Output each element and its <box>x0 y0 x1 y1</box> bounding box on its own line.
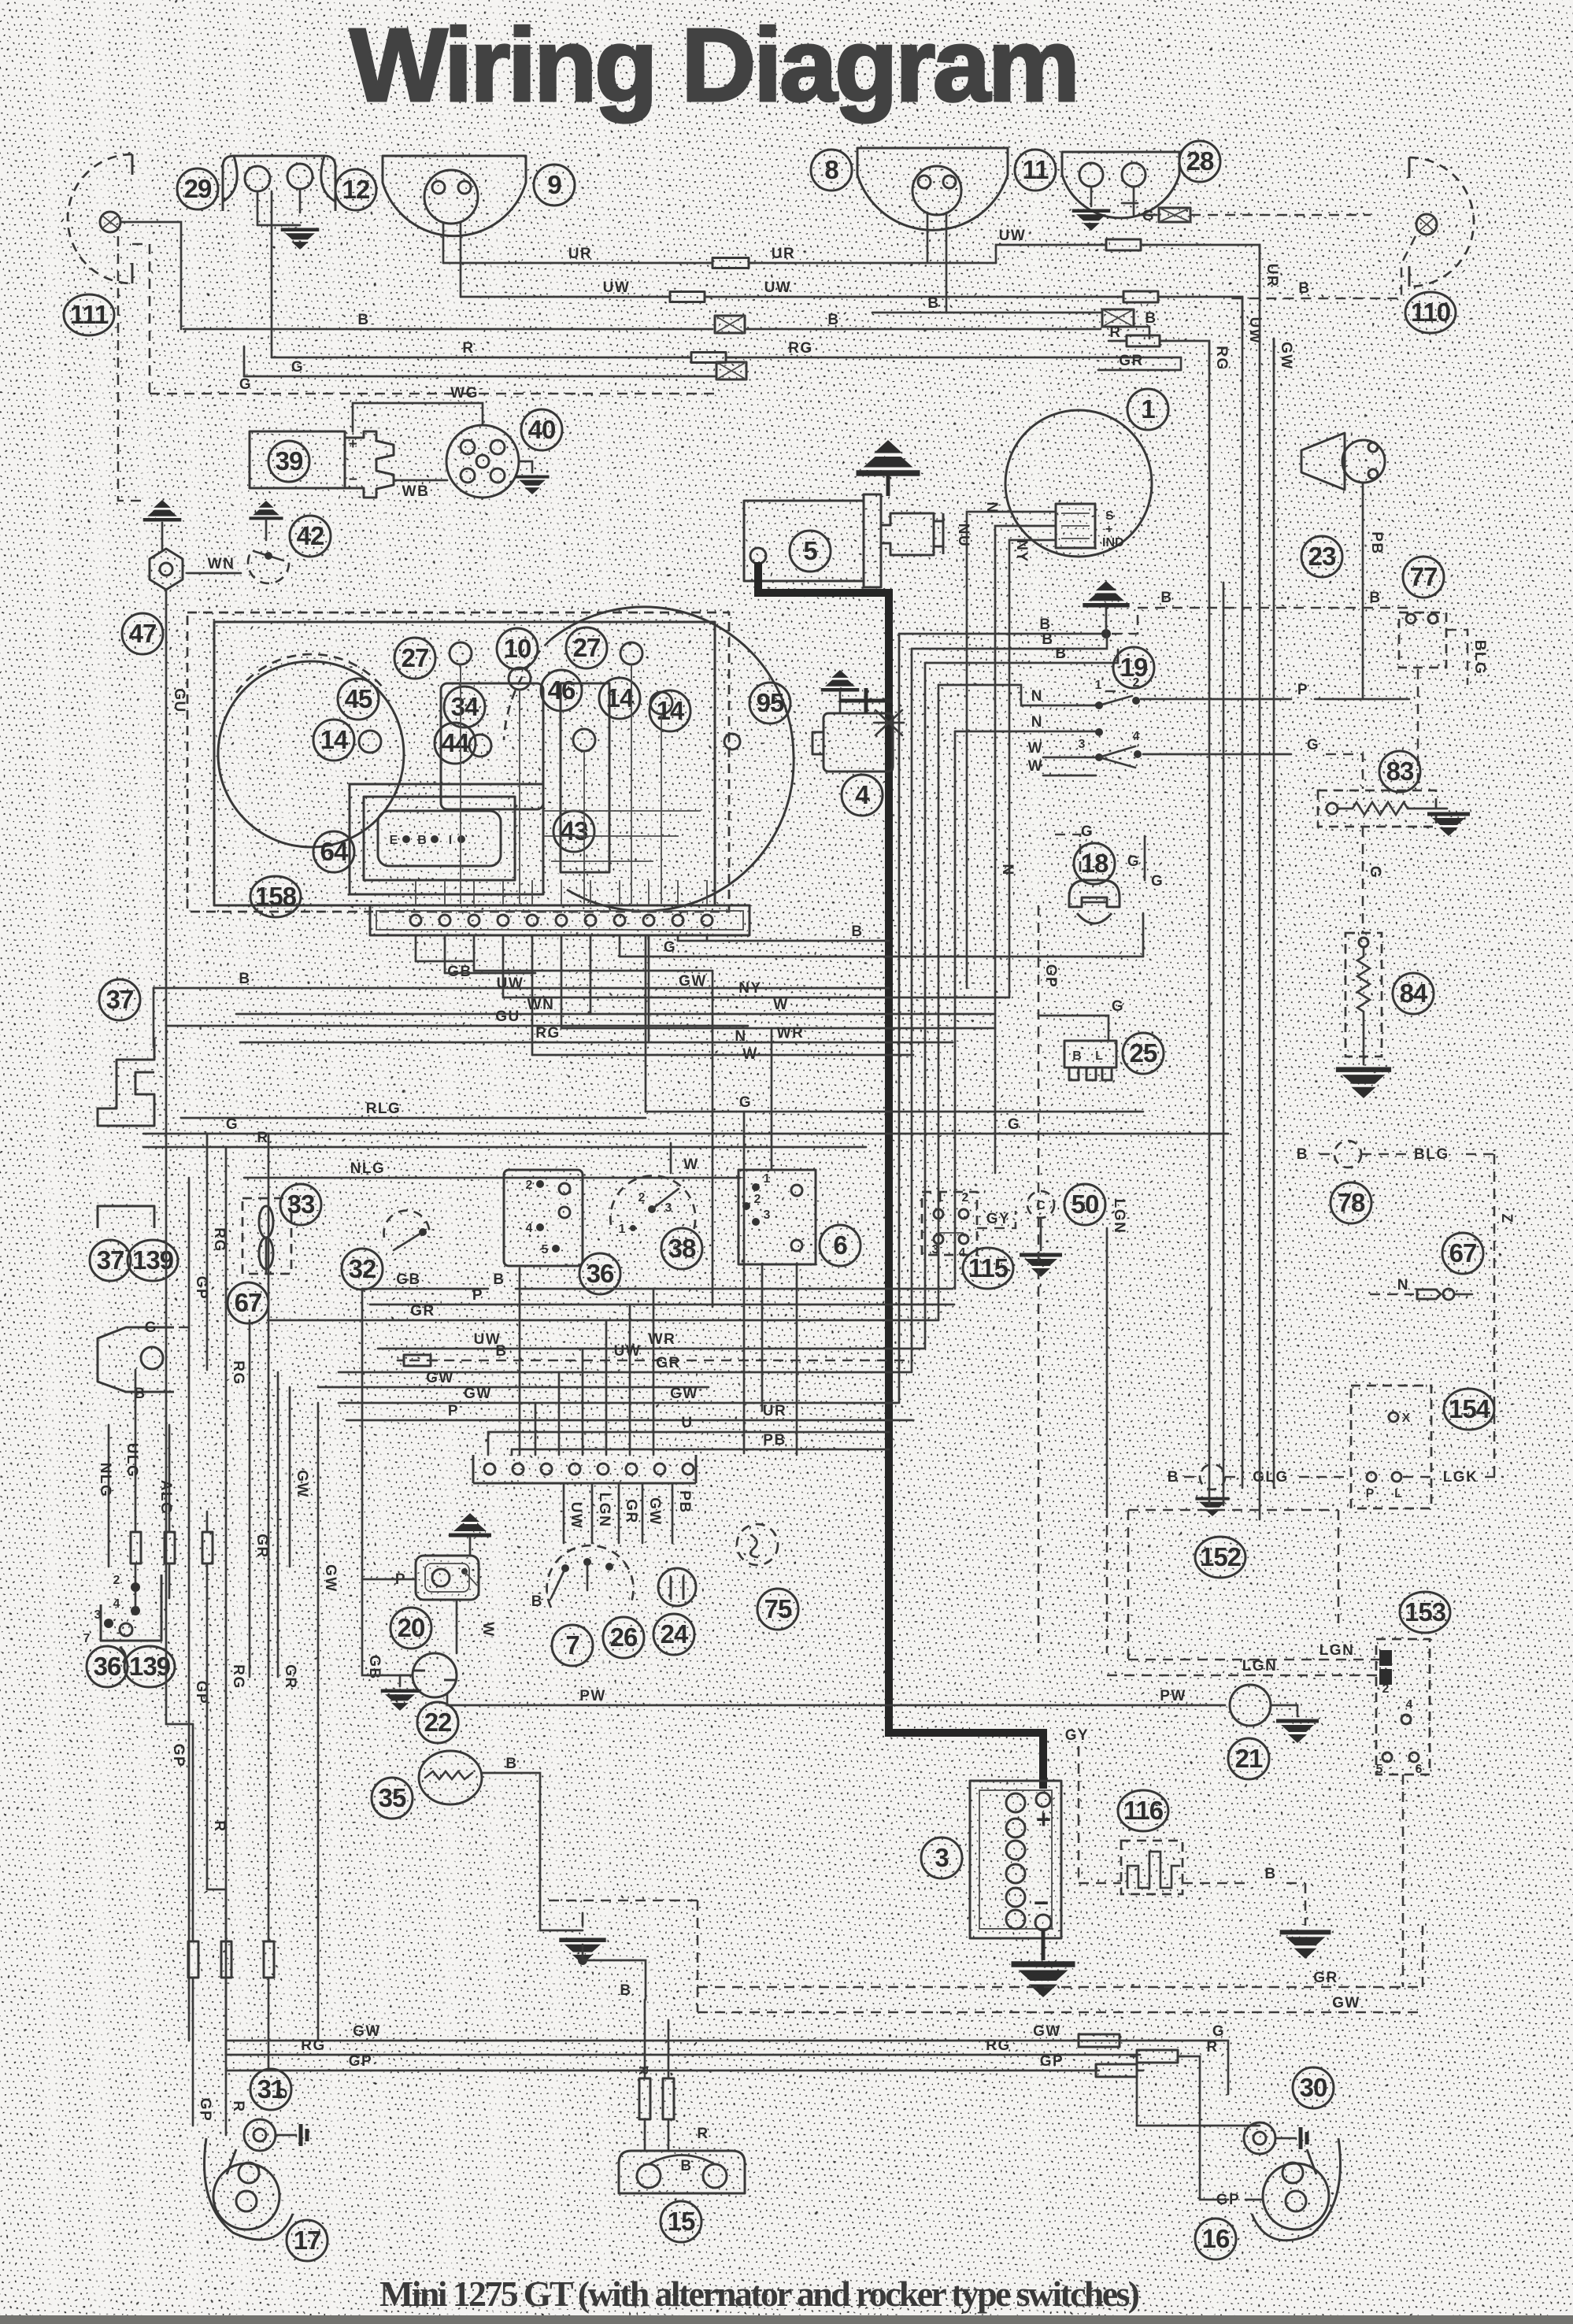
label circle 44 <box>435 723 476 764</box>
center bundle verticals <box>898 634 901 1403</box>
svg-text:RG: RG <box>986 2037 1011 2054</box>
wire RG/WR row <box>240 1042 953 1044</box>
svg-text:2: 2 <box>962 1191 969 1205</box>
wire UW row 3 <box>409 1360 913 1362</box>
svg-text:N: N <box>1031 688 1043 705</box>
label circle 24 <box>653 1614 694 1655</box>
wire dashed from 153 down <box>1402 1774 1405 1987</box>
svg-text:W: W <box>1028 740 1043 757</box>
wires from alternator <box>967 512 1056 988</box>
svg-text:39: 39 <box>276 446 303 476</box>
svg-text:B: B <box>495 1343 507 1360</box>
svg-text:17: 17 <box>294 2226 321 2255</box>
svg-text:B: B <box>680 2158 692 2174</box>
svg-text:152: 152 <box>1200 1542 1242 1571</box>
svg-text:B: B <box>1160 590 1172 606</box>
UW connector <box>670 292 705 302</box>
flasher unit 4 <box>821 670 860 690</box>
svg-text:R: R <box>1206 2039 1218 2056</box>
svg-text:NU: NU <box>955 524 972 547</box>
label circle 6 <box>820 1225 861 1266</box>
svg-text:G: G <box>1127 853 1140 870</box>
svg-text:15: 15 <box>668 2207 695 2236</box>
label circle 7 <box>552 1625 593 1666</box>
svg-text:B: B <box>851 923 863 940</box>
label circle 42 <box>290 516 331 557</box>
ignition connector bracket <box>473 1455 696 1483</box>
svg-text:GW: GW <box>646 1497 663 1526</box>
svg-text:NLG: NLG <box>97 1463 113 1498</box>
ground at 31 <box>276 2134 296 2137</box>
wire R row <box>143 1146 866 1149</box>
svg-text:GW: GW <box>353 2023 381 2040</box>
svg-text:1: 1 <box>1141 394 1155 424</box>
svg-text:GU: GU <box>495 1008 520 1025</box>
svg-text:7: 7 <box>83 1632 91 1645</box>
interior light 75 dashed <box>737 1524 778 1565</box>
label circle 25 <box>1123 1033 1164 1074</box>
GP fuse bottom <box>1096 2064 1137 2077</box>
B connector with X <box>1102 309 1134 327</box>
bulb near 14c <box>359 731 381 753</box>
svg-text:RG: RG <box>301 2037 326 2054</box>
svg-text:42: 42 <box>297 521 324 550</box>
wire GY at 115 <box>977 1211 1016 1228</box>
svg-text:UW: UW <box>999 228 1027 244</box>
label circle 39 <box>268 441 309 482</box>
svg-text:R: R <box>1109 324 1121 341</box>
svg-text:B: B <box>1072 1049 1082 1063</box>
svg-text:BLG: BLG <box>1471 640 1488 675</box>
svg-text:40: 40 <box>528 415 556 444</box>
svg-text:B: B <box>927 295 939 312</box>
reverse switch 21 <box>1230 1685 1271 1726</box>
wire LGN dashed row 2 <box>1107 1675 1379 1677</box>
wire B upper right <box>872 312 1101 314</box>
svg-text:UR: UR <box>1264 264 1280 287</box>
label circle 47 <box>122 613 163 654</box>
svg-text:B: B <box>1039 616 1051 633</box>
turn switch row 3 <box>1043 757 1096 759</box>
wire BLG dashed <box>1446 630 1468 685</box>
svg-text:B: B <box>1042 631 1053 648</box>
wire GR vertical b <box>277 1372 279 1677</box>
svg-text:26: 26 <box>610 1623 638 1652</box>
wire G dashed long <box>150 393 716 395</box>
feeds to lamp 16 <box>1228 2125 1260 2127</box>
svg-text:28: 28 <box>1186 146 1214 176</box>
svg-text:27: 27 <box>402 643 429 672</box>
wire B long <box>183 328 712 331</box>
wire LGN dashed row 1 <box>1128 1659 1379 1661</box>
number plate feed connectors <box>639 2078 650 2119</box>
wire B dashed from 116 <box>1183 1882 1249 1885</box>
svg-text:4: 4 <box>526 1222 533 1235</box>
bulb near 14a <box>650 692 672 714</box>
svg-text:GP: GP <box>1042 964 1059 988</box>
instrument cluster box <box>214 622 715 905</box>
wire GW bottom <box>226 2040 1228 2042</box>
svg-text:G: G <box>739 1094 752 1111</box>
strip pigtails down <box>415 935 417 961</box>
svg-text:4: 4 <box>855 780 870 809</box>
wire Z dashed <box>1493 1154 1496 1477</box>
svg-text:2: 2 <box>526 1179 533 1192</box>
dashed link 77 to 83 <box>1417 669 1419 790</box>
svg-text:2: 2 <box>754 1193 761 1206</box>
alternator terminal block <box>1056 504 1095 548</box>
wire UW main <box>461 296 669 298</box>
label circle 153 <box>1400 1592 1450 1633</box>
svg-text:PB: PB <box>763 1432 786 1449</box>
svg-text:35: 35 <box>379 1783 406 1812</box>
svg-text:RG: RG <box>230 1664 246 1689</box>
distributor 40 <box>446 425 519 498</box>
svg-text:GW: GW <box>464 1386 492 1402</box>
svg-text:BLG: BLG <box>1414 1146 1449 1163</box>
inner rect column <box>561 683 609 872</box>
ignition coil 5 <box>744 501 864 581</box>
headlamp 8/11 bowl <box>857 148 1008 230</box>
wire B row 805 <box>899 633 1101 635</box>
svg-text:G: G <box>1307 737 1319 753</box>
ignition key 24 <box>658 1568 696 1606</box>
svg-text:9: 9 <box>547 170 561 199</box>
wire B long row <box>154 987 889 990</box>
ground at 83 <box>1422 808 1447 810</box>
hazard switch 36/139 <box>101 1575 161 1641</box>
wire GB vertical <box>361 1289 364 1582</box>
svg-text:84: 84 <box>1400 979 1428 1008</box>
svg-text:23: 23 <box>1308 542 1336 571</box>
svg-text:N: N <box>999 864 1016 875</box>
connector 115 dashed box <box>922 1192 977 1255</box>
bulbs in 11/28 <box>1079 163 1103 187</box>
svg-text:44: 44 <box>442 728 470 757</box>
label circle 67 left <box>228 1282 268 1323</box>
wire WG to distributor <box>353 403 483 431</box>
svg-text:GR: GR <box>282 1664 298 1689</box>
column drops to ignition connector <box>487 1432 490 1455</box>
ground above coil <box>857 440 920 473</box>
svg-text:36: 36 <box>94 1652 121 1681</box>
svg-text:B: B <box>1369 590 1381 606</box>
label circle 8 <box>811 150 852 191</box>
wire GP far left <box>165 1026 168 1724</box>
ground left column <box>143 500 182 520</box>
relay 25 <box>1064 1041 1116 1068</box>
bottom scan strip <box>0 2315 1573 2324</box>
svg-text:LGN: LGN <box>596 1493 613 1528</box>
svg-text:B: B <box>493 1271 505 1288</box>
label circle 5 <box>790 531 831 572</box>
connector 154 dashed box <box>1351 1386 1431 1508</box>
UR connector right <box>1106 239 1141 250</box>
fan blades <box>259 1206 273 1238</box>
brake switch 42 dashed <box>249 501 283 518</box>
svg-text:+: + <box>1105 523 1112 536</box>
svg-text:1: 1 <box>764 1172 771 1186</box>
svg-text:31: 31 <box>257 2074 285 2104</box>
svg-text:B: B <box>1145 310 1157 327</box>
svg-text:GP: GP <box>349 2053 372 2070</box>
svg-text:33: 33 <box>287 1190 315 1219</box>
svg-text:B: B <box>827 312 839 328</box>
wire B row 824 <box>912 635 1107 649</box>
svg-text:78: 78 <box>1338 1188 1365 1217</box>
svg-text:110: 110 <box>1411 298 1450 327</box>
wire RLG row <box>181 1117 646 1119</box>
inline fuses left column <box>131 1532 141 1564</box>
headlamp 29/12 bowl <box>223 156 335 211</box>
front lamp 30 <box>1244 2122 1275 2154</box>
svg-text:UR: UR <box>568 246 592 262</box>
label circle 78 <box>1331 1182 1371 1223</box>
label circle 83 <box>1379 751 1420 792</box>
label circle 33 <box>280 1184 321 1225</box>
label circle 36 <box>579 1253 620 1294</box>
svg-text:5: 5 <box>1376 1763 1383 1776</box>
label circle 34 <box>444 686 485 727</box>
svg-text:G: G <box>145 1319 157 1336</box>
svg-text:4: 4 <box>959 1246 966 1260</box>
svg-text:N: N <box>1031 714 1043 731</box>
cluster internal wires <box>460 664 461 904</box>
bulb near 10 <box>509 668 531 690</box>
label circle 14 b <box>650 690 690 731</box>
wire G dashed to RH headlamp <box>1133 187 1135 215</box>
speedometer circle <box>218 661 404 847</box>
wire ALG vertical <box>168 1425 171 1530</box>
label circle 50 <box>1064 1184 1105 1225</box>
connector 50 <box>1027 1191 1054 1218</box>
svg-text:4: 4 <box>1133 730 1140 743</box>
wire GP dashed vertical <box>1038 905 1040 1653</box>
label circle 14 a <box>599 678 640 719</box>
wire WN/W row <box>236 1013 995 1016</box>
svg-text:64: 64 <box>320 837 349 866</box>
svg-text:P: P <box>1297 682 1308 698</box>
svg-text:X: X <box>1402 1412 1411 1425</box>
svg-text:Wiring Diagram: Wiring Diagram <box>350 7 1080 123</box>
svg-text:GR: GR <box>656 1355 681 1371</box>
svg-text:G: G <box>1142 208 1155 224</box>
svg-text:2: 2 <box>638 1191 646 1205</box>
wire P row <box>370 1304 954 1306</box>
svg-text:GW: GW <box>1033 2023 1061 2040</box>
svg-text:G: G <box>664 939 676 956</box>
svg-text:GY: GY <box>986 1211 1010 1227</box>
wire GW dashed loop <box>698 2011 1423 2014</box>
wire GW vertical b <box>317 1403 320 2041</box>
dashed drop to 84 <box>1362 827 1364 933</box>
svg-text:G: G <box>1151 873 1164 890</box>
svg-text:4: 4 <box>1406 1698 1413 1712</box>
right bundle verticals <box>1208 341 1211 1505</box>
svg-text:32: 32 <box>349 1254 376 1283</box>
label circle 30 <box>1293 2067 1334 2108</box>
svg-text:7: 7 <box>565 1630 579 1660</box>
label circle 23 <box>1301 536 1342 577</box>
wire GP bottom <box>226 2070 1099 2072</box>
svg-text:GLG: GLG <box>1253 1469 1289 1486</box>
wire GR stub <box>1098 369 1181 372</box>
svg-text:G: G <box>239 376 252 393</box>
svg-text:50: 50 <box>1071 1190 1099 1219</box>
svg-text:116: 116 <box>1123 1796 1164 1825</box>
fuel pump 22 <box>413 1653 457 1697</box>
switch box 64 <box>364 797 515 880</box>
wire UW row <box>445 972 535 975</box>
warning bulbs row <box>573 729 595 751</box>
wire LGN vertical <box>1106 1228 1109 1508</box>
label circle 31 <box>250 2069 291 2110</box>
svg-text:PW: PW <box>579 1688 606 1704</box>
front lamp 31 <box>192 2041 194 2126</box>
svg-text:139: 139 <box>132 1245 174 1275</box>
svg-text:34: 34 <box>451 692 479 721</box>
wires down cluster right side <box>712 971 714 1307</box>
bulb near 27R <box>620 642 642 664</box>
label circle 26 <box>603 1617 644 1658</box>
svg-text:14: 14 <box>657 696 685 725</box>
wire ULG vertical <box>135 1370 137 1530</box>
svg-text:24: 24 <box>661 1619 689 1649</box>
wires from lamp 8/11 down <box>927 213 929 263</box>
wire UW from lamp 9 <box>460 223 462 297</box>
label circle 27 right <box>566 627 607 668</box>
svg-text:B: B <box>1298 280 1310 297</box>
svg-text:2: 2 <box>113 1574 120 1587</box>
headlamp 11/28 bowl <box>1062 152 1179 218</box>
wiper switch 36 box <box>504 1170 583 1266</box>
bonnet light <box>141 1347 163 1369</box>
svg-text:WN: WN <box>208 556 235 572</box>
svg-text:158: 158 <box>255 882 297 911</box>
label circle 43 <box>553 811 594 852</box>
gauge 32 dashed circle <box>384 1211 430 1238</box>
svg-text:−: − <box>349 472 359 488</box>
right bundle verticals from top connectors <box>1273 339 1275 370</box>
ground left of pump <box>400 1675 413 1677</box>
svg-text:2: 2 <box>1133 676 1140 690</box>
left lamp verticals <box>192 1978 194 2041</box>
svg-text:75: 75 <box>764 1594 792 1623</box>
ground above wiper <box>449 1513 491 1535</box>
svg-text:3: 3 <box>665 1201 672 1215</box>
svg-text:10: 10 <box>504 634 531 663</box>
label circle 22 <box>417 1702 458 1743</box>
earth at B junction <box>1083 581 1129 605</box>
svg-text:LGN: LGN <box>1319 1642 1355 1659</box>
label circle 28 <box>1179 141 1220 182</box>
tachometer circle 95 <box>551 607 794 911</box>
label circle 16 <box>1195 2219 1236 2259</box>
label circle 12 <box>335 169 376 210</box>
svg-text:E: E <box>390 834 398 847</box>
wire P from turn switch <box>1141 698 1291 701</box>
label circle 21 <box>1228 1738 1269 1779</box>
wire LGK dashed <box>1403 1476 1438 1478</box>
svg-text:PB: PB <box>1368 531 1385 554</box>
UR connector <box>712 258 749 268</box>
svg-text:UW: UW <box>614 1343 642 1360</box>
wire G row 2 <box>646 1111 1143 1113</box>
svg-text:LGN: LGN <box>1242 1658 1278 1675</box>
svg-text:GW: GW <box>1332 1995 1360 2011</box>
svg-text:37: 37 <box>106 985 134 1014</box>
wire GR vertical a <box>249 1320 251 1677</box>
label circle 110 <box>1405 292 1456 333</box>
wire PB row <box>512 1449 889 1451</box>
svg-text:UR: UR <box>763 1403 786 1419</box>
svg-text:Mini 1275 GT (with alternator: Mini 1275 GT (with alternator and rocker… <box>379 2274 1140 2314</box>
svg-text:B: B <box>1055 646 1067 662</box>
svg-text:NY: NY <box>1013 539 1030 562</box>
svg-text:B: B <box>239 971 250 987</box>
wire from LH headlamp <box>120 222 181 329</box>
wire B row 842 <box>925 649 1118 663</box>
label circle 19 <box>1113 647 1154 688</box>
wire B dashed to 77 <box>1101 629 1111 638</box>
dip switch 18 <box>1074 843 1115 884</box>
connector 78 dashed circle <box>1334 1141 1361 1168</box>
svg-text:W: W <box>1028 758 1043 775</box>
svg-text:PB: PB <box>676 1490 693 1513</box>
label circles 37/139 <box>90 1240 131 1281</box>
label circle 32 <box>342 1249 383 1290</box>
courtesy switch left <box>98 1327 174 1392</box>
wire G dashed from LH headlamp <box>132 244 150 394</box>
svg-text:25: 25 <box>1130 1038 1157 1068</box>
label circle 154 <box>1444 1389 1494 1430</box>
flasher unit 47 hex <box>150 549 183 590</box>
connector 152 dashed outline <box>1127 1510 1130 1660</box>
svg-text:154: 154 <box>1449 1394 1491 1423</box>
label circle 116 <box>1118 1790 1168 1831</box>
svg-text:38: 38 <box>668 1234 696 1263</box>
ground under lamp 12 <box>257 191 259 225</box>
wire U row <box>488 1431 889 1434</box>
turn switch row 4 <box>1043 775 1096 777</box>
battery earth <box>1042 1930 1046 1960</box>
svg-text:R: R <box>211 1820 228 1832</box>
svg-text:W: W <box>773 997 788 1013</box>
wire NY row <box>503 997 1009 999</box>
svg-text:12: 12 <box>342 175 370 204</box>
G connector with X <box>716 362 746 379</box>
label circle 35 <box>372 1778 413 1819</box>
label circle 9 <box>534 165 575 205</box>
svg-text:G: G <box>291 359 304 376</box>
svg-text:5: 5 <box>803 536 817 565</box>
battery 3 <box>970 1781 1061 1938</box>
label circle 152 <box>1195 1537 1245 1578</box>
heater unit 116 comb <box>1121 1841 1183 1894</box>
svg-text:UW: UW <box>568 1502 584 1530</box>
label circle 27 left <box>394 638 435 679</box>
svg-text:WG: WG <box>450 385 479 402</box>
wire B drop mid <box>540 1930 583 1932</box>
svg-text:W: W <box>683 1156 698 1173</box>
inline connectors left bottom <box>188 1941 198 1978</box>
svg-text:111: 111 <box>70 300 109 329</box>
svg-text:67: 67 <box>1449 1238 1477 1267</box>
alternator 1 <box>1005 410 1152 557</box>
label circle 10 <box>497 628 538 669</box>
svg-text:+: + <box>1036 1804 1050 1834</box>
svg-text:UW: UW <box>497 975 524 992</box>
